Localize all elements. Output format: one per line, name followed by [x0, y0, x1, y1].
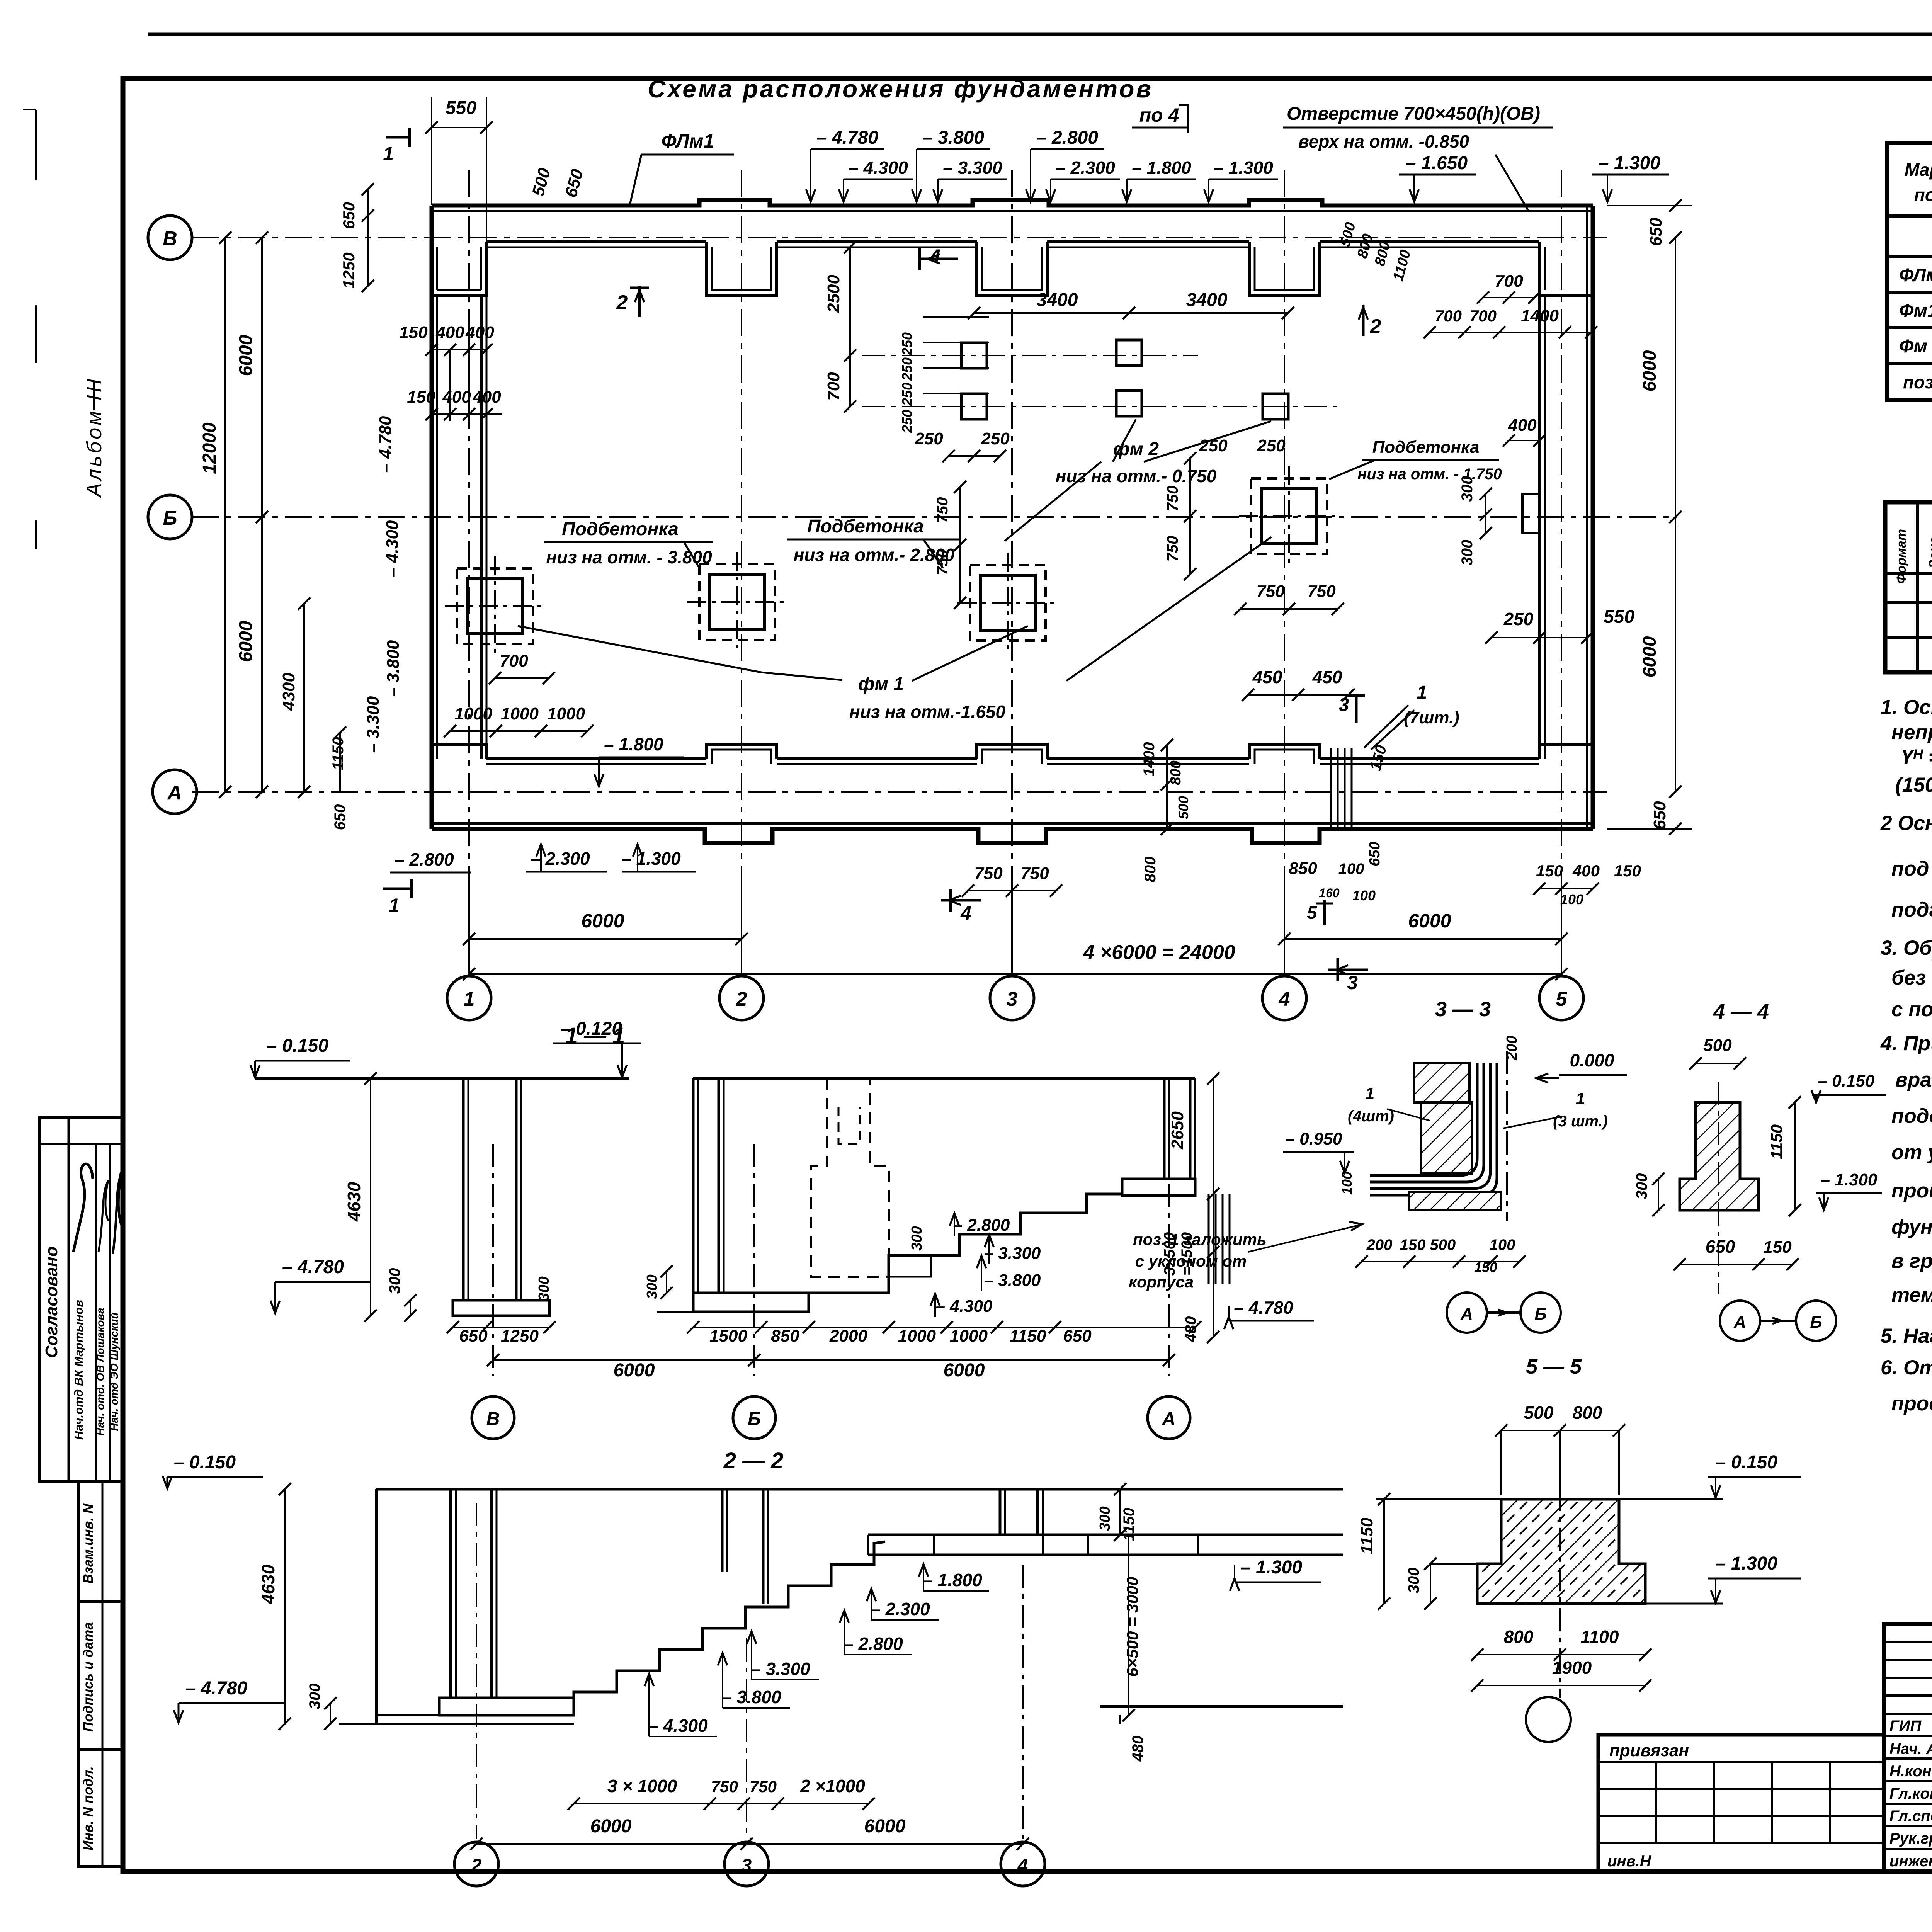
- svg-text:– 2.300: – 2.300: [1056, 158, 1115, 178]
- svg-text:2: 2: [1370, 315, 1381, 338]
- section 2-2 axis dashdots: [476, 1503, 477, 1839]
- svg-text:Нач. отд. ОВ Лошакова: Нач. отд. ОВ Лошакова: [94, 1308, 106, 1435]
- svg-text:1: 1: [383, 143, 394, 165]
- svg-text:Подбетонка: Подбетонка: [562, 519, 679, 539]
- svg-text:2000: 2000: [829, 1327, 867, 1345]
- svg-text:Рук.гр.: Рук.гр.: [1889, 1830, 1932, 1847]
- svg-text:– 0.150: – 0.150: [1818, 1071, 1875, 1090]
- svg-text:0.000: 0.000: [1570, 1050, 1614, 1070]
- svg-text:(4шт): (4шт): [1348, 1108, 1394, 1125]
- section 4-4 circles А Б: [1720, 1301, 1760, 1341]
- section 2-2 wall axis 4: [999, 1489, 1002, 1535]
- svg-text:500: 500: [1703, 1036, 1732, 1055]
- svg-text:Подбетонка: Подбетонка: [807, 516, 924, 537]
- svg-text:– 2.800: – 2.800: [395, 849, 454, 869]
- svg-text:– 1.650: – 1.650: [1406, 153, 1468, 173]
- svg-text:– 2.300: – 2.300: [531, 849, 590, 869]
- svg-text:300: 300: [1633, 1173, 1650, 1199]
- svg-text:750: 750: [711, 1777, 738, 1796]
- left strip box Взам.инв.N: [79, 1481, 124, 1602]
- svg-text:– 4.780: – 4.780: [1234, 1298, 1293, 1318]
- svg-text:750: 750: [934, 549, 951, 575]
- svg-text:– 4.300: – 4.300: [936, 1297, 993, 1316]
- svg-text:300: 300: [909, 1226, 925, 1250]
- svg-text:150: 150: [1474, 1259, 1497, 1275]
- plan top wall inner edge with pier notches: [486, 240, 706, 243]
- title block signature grid: [1884, 1641, 1932, 1643]
- svg-text:Подпись и дата: Подпись и дата: [81, 1622, 96, 1732]
- svg-text:– 4.780: – 4.780: [816, 128, 878, 148]
- section 1-1 staircase: [809, 1194, 1122, 1293]
- svg-text:400: 400: [442, 388, 471, 406]
- svg-text:Схема расположения фундамен: Схема расположения фундаментов: [648, 75, 1153, 103]
- svg-text:непросадочные со следующими: непросадочные со следующими характеристи…: [1891, 721, 1932, 744]
- svg-text:1150: 1150: [330, 737, 347, 770]
- svg-text:5: 5: [1307, 903, 1317, 923]
- svg-text:фундаменты теплоизоляционны: фундаменты теплоизоляционными материалам…: [1891, 1216, 1932, 1238]
- svg-text:6000: 6000: [236, 335, 256, 376]
- svg-text:– 0.950: – 0.950: [1286, 1129, 1342, 1148]
- svg-text:Гл.спец.: Гл.спец.: [1889, 1808, 1932, 1825]
- svg-text:В: В: [486, 1409, 500, 1429]
- section 2-2 axis circles: [454, 1842, 498, 1886]
- svg-text:Марка: Марка: [1905, 160, 1932, 180]
- svg-text:Инв. N подл.: Инв. N подл.: [81, 1766, 96, 1850]
- svg-text:1: 1: [1365, 1084, 1374, 1103]
- pier ФМ1 #2 with подбетонка dashed outline: [699, 564, 775, 640]
- svg-text:2: 2: [616, 291, 628, 314]
- spec table 2 grid: [1885, 502, 1932, 672]
- svg-text:150: 150: [399, 323, 428, 342]
- pier ФМ1 #3 with подбетонка dashed outline: [970, 565, 1046, 641]
- svg-text:800: 800: [1504, 1627, 1534, 1647]
- svg-text:Нач. АСО: Нач. АСО: [1889, 1740, 1932, 1757]
- pier ФМ2 #1: [961, 343, 987, 368]
- svg-text:1000: 1000: [501, 704, 539, 723]
- spec table 1 grid: [1887, 143, 1932, 400]
- svg-text:низ на отм. - 3.800: низ на отм. - 3.800: [546, 547, 712, 567]
- plan top wall outer edge with bumps: [432, 200, 1593, 206]
- section 1-1 slab at А: [1122, 1179, 1195, 1196]
- svg-text:2650: 2650: [1168, 1111, 1187, 1150]
- svg-text:400: 400: [1572, 862, 1600, 880]
- section 2-2 ground line: [376, 1488, 1343, 1491]
- svg-text:4: 4: [1017, 1855, 1028, 1876]
- svg-text:250: 250: [899, 383, 915, 406]
- axis line В: [192, 237, 1607, 238]
- svg-text:1500: 1500: [709, 1327, 747, 1345]
- section 5-5 bottom circle: [1526, 1697, 1571, 1742]
- svg-text:5. Нагрузка на фундамент: 5. Нагрузка на фундамент ФЛм 1- 33 кНм: [1881, 1325, 1932, 1347]
- svg-text:– 1.800: – 1.800: [1132, 158, 1191, 178]
- svg-text:1100: 1100: [1581, 1627, 1619, 1647]
- svg-text:300: 300: [306, 1684, 323, 1709]
- axis circle 1: [447, 976, 491, 1020]
- svg-text:300: 300: [1459, 476, 1476, 502]
- svg-text:4300: 4300: [279, 673, 298, 711]
- svg-text:Зона: Зона: [1927, 537, 1932, 568]
- svg-text:– 1.300: – 1.300: [1240, 1557, 1302, 1578]
- svg-text:500: 500: [1524, 1403, 1554, 1423]
- svg-text:3. Обратную засыпку пазух: 3. Обратную засыпку пазух фундаментов пр…: [1881, 937, 1932, 959]
- section 2-2 dim 4630: [284, 1489, 286, 1724]
- svg-text:450: 450: [1252, 667, 1282, 687]
- axis circle 4: [1262, 976, 1306, 1020]
- svg-text:1150: 1150: [1357, 1517, 1376, 1554]
- svg-text:3400: 3400: [1037, 290, 1078, 310]
- svg-text:– 0.150: – 0.150: [267, 1036, 328, 1056]
- svg-text:480: 480: [1182, 1316, 1199, 1343]
- svg-text:12000: 12000: [199, 422, 220, 474]
- svg-text:4630: 4630: [344, 1182, 364, 1222]
- svg-text:температуру замерзания г: температуру замерзания грунта: [1891, 1284, 1932, 1306]
- dim 2500 700 rotated: [849, 247, 851, 406]
- svg-text:ГИП: ГИП: [1889, 1718, 1922, 1735]
- svg-text:850: 850: [1289, 859, 1317, 878]
- svg-text:250: 250: [899, 357, 915, 381]
- pier ФМ2 #2: [961, 394, 987, 419]
- svg-text:150: 150: [1763, 1238, 1792, 1257]
- svg-text:с уклоном от: с уклоном от: [1135, 1252, 1247, 1270]
- svg-text:– 4.780: – 4.780: [282, 1257, 344, 1277]
- right wall jog at Б: [1522, 494, 1539, 533]
- svg-text:поз.: поз.: [1914, 185, 1932, 205]
- svg-text:низ на отм.-1.650: низ на отм.-1.650: [849, 702, 1005, 722]
- svg-text:550: 550: [1604, 607, 1634, 627]
- svg-text:Подбетонка: Подбетонка: [1372, 438, 1480, 457]
- svg-text:2: 2: [736, 988, 747, 1010]
- svg-text:3: 3: [1347, 972, 1358, 993]
- svg-text:3 × 1000: 3 × 1000: [607, 1776, 677, 1796]
- section 3-3 bottom hatched slab: [1409, 1192, 1501, 1210]
- svg-text:с послойным трамбованием: с послойным трамбованием до получения ϒ …: [1891, 998, 1932, 1021]
- svg-text:А: А: [1733, 1313, 1746, 1332]
- svg-text:В: В: [163, 228, 177, 250]
- svg-text:– 4.780: – 4.780: [185, 1678, 247, 1699]
- svg-text:низ на отм.- 2.800: низ на отм.- 2.800: [794, 545, 955, 565]
- section 5-5 hatched foundation: [1477, 1499, 1645, 1604]
- section 2-2 wall axis 2: [449, 1489, 452, 1698]
- svg-text:700: 700: [1495, 272, 1523, 291]
- svg-text:1000: 1000: [454, 704, 492, 723]
- right side vertical dim 6000 6000 with 650: [1675, 238, 1676, 517]
- section 1-1 wall at Б: [692, 1078, 695, 1293]
- svg-text:100: 100: [1560, 891, 1583, 907]
- left vertical dims 6000 6000: [261, 238, 263, 517]
- svg-text:корпуса: корпуса: [1129, 1273, 1194, 1291]
- svg-text:производить засыпку грунт: производить засыпку грунтом пазух котлов…: [1891, 1179, 1932, 1202]
- svg-text:Фм1: Фм1: [1899, 301, 1932, 321]
- svg-text:– 1.300: – 1.300: [621, 849, 681, 869]
- section 5-5 ground lines: [1376, 1498, 1501, 1500]
- section 2-2 left border: [375, 1489, 378, 1724]
- svg-text:проекта.: проекта.: [1891, 1392, 1932, 1415]
- svg-text:Үᴴ = 28° Сᴴ = 2 кпа ( 0.0: Үᴴ = 28° Сᴴ = 2 кпа ( 0.02 кгс /см ² ) Е…: [1901, 746, 1932, 769]
- section 3-3 circles А Б: [1447, 1293, 1487, 1333]
- svg-text:100: 100: [1490, 1236, 1515, 1253]
- svg-text:6000: 6000: [590, 1816, 632, 1837]
- svg-text:привязан: привязан: [1609, 1741, 1689, 1760]
- svg-text:3: 3: [1339, 695, 1349, 715]
- svg-text:– 3.300: – 3.300: [984, 1244, 1041, 1263]
- svg-text:вращения возможности мороз: вращения возможности морозного пучения г…: [1895, 1068, 1932, 1091]
- section 2-2 top slab right: [868, 1534, 1343, 1536]
- svg-text:1: 1: [1417, 682, 1427, 703]
- svg-text:– 2.800: – 2.800: [844, 1634, 903, 1654]
- svg-text:5 — 5: 5 — 5: [1526, 1355, 1582, 1378]
- svg-text:верх на отм. -0.850: верх на отм. -0.850: [1298, 131, 1469, 151]
- svg-text:250: 250: [1199, 436, 1228, 455]
- svg-text:4: 4: [960, 902, 971, 924]
- svg-text:– 1.300: – 1.300: [1599, 153, 1660, 173]
- plan bottom-left corner pier: [432, 744, 486, 759]
- svg-text:от увлажнения поверхностным: от увлажнения поверхностными водами , св…: [1891, 1141, 1932, 1164]
- svg-text:450: 450: [1312, 667, 1342, 687]
- svg-text:650: 650: [332, 804, 349, 830]
- section 3-3 upper hatched wall: [1414, 1063, 1469, 1102]
- axis circle 3: [990, 976, 1034, 1020]
- svg-text:5: 5: [1556, 988, 1568, 1010]
- svg-text:6. Отверстия для пропуска: 6. Отверстия для пропуска труб ВК выполн…: [1881, 1356, 1932, 1379]
- svg-text:– 3.800: – 3.800: [722, 1687, 781, 1707]
- svg-text:– 4.300: – 4.300: [849, 158, 908, 178]
- axis circles В Б А section 1-1: [472, 1396, 514, 1439]
- svg-text:– 2.300: – 2.300: [871, 1599, 930, 1619]
- svg-text:– 1.800: – 1.800: [604, 734, 663, 754]
- svg-text:А: А: [1460, 1304, 1473, 1323]
- svg-text:Нач. отд ЭО Шунский: Нач. отд ЭО Шунский: [108, 1313, 120, 1431]
- axis dash В section 1-1: [492, 1144, 494, 1376]
- svg-text:300: 300: [1405, 1568, 1422, 1594]
- svg-text:3 — 3: 3 — 3: [1435, 998, 1491, 1021]
- svg-text:6000: 6000: [1639, 350, 1660, 391]
- dashed pit section 1-1: [811, 1078, 889, 1277]
- svg-text:480: 480: [1129, 1736, 1146, 1762]
- plan right wall: [1591, 206, 1595, 829]
- svg-text:1000: 1000: [547, 704, 585, 723]
- svg-text:(150 кгс/см ² ) ; ϒ = 1.8: (150 кгс/см ² ) ; ϒ = 1.8 т/м ³. Грунтов…: [1895, 774, 1932, 796]
- svg-text:– 1.300: – 1.300: [1716, 1553, 1777, 1574]
- plan left wall: [430, 206, 434, 829]
- svg-text:ФЛм1: ФЛм1: [1899, 265, 1932, 286]
- svg-text:Б: Б: [1810, 1313, 1822, 1332]
- svg-text:700: 700: [500, 651, 528, 670]
- svg-text:3: 3: [742, 1855, 752, 1876]
- plan bottom wall inner edge with pier notches: [486, 757, 706, 760]
- svg-text:под монолитные фундаменты: под монолитные фундаменты Фм 1 предусмот…: [1891, 857, 1932, 880]
- svg-text:650: 650: [1650, 801, 1669, 830]
- svg-text:300: 300: [536, 1276, 552, 1301]
- svg-text:ФЛм1: ФЛм1: [662, 130, 714, 152]
- svg-text:– 2.800: – 2.800: [1036, 128, 1098, 148]
- pier ФМ1 #4 with подбетонка dashed outline: [1251, 478, 1327, 554]
- svg-text:4: 4: [1279, 988, 1290, 1010]
- svg-text:6000: 6000: [1408, 910, 1451, 932]
- svg-text:Формат: Формат: [1894, 529, 1909, 584]
- svg-text:фм 1: фм 1: [858, 674, 904, 694]
- svg-text:200: 200: [1366, 1236, 1393, 1253]
- svg-text:100: 100: [1338, 861, 1364, 878]
- svg-text:650: 650: [1646, 218, 1665, 246]
- svg-text:1400: 1400: [1521, 306, 1559, 325]
- svg-text:1250: 1250: [340, 252, 358, 288]
- svg-text:подготовки из бетона к: подготовки из бетона класса В12.5.: [1891, 898, 1932, 921]
- plan bottom-right corner pier: [1539, 744, 1593, 759]
- svg-text:750: 750: [1164, 536, 1181, 562]
- left bound table привязан: [1598, 1735, 1884, 1871]
- axis circle 5: [1539, 976, 1583, 1020]
- svg-text:низ на отм. - 1.750: низ на отм. - 1.750: [1357, 466, 1502, 483]
- axis circle Б: [148, 495, 192, 539]
- svg-text:Н.контр: Н.контр: [1889, 1763, 1932, 1780]
- svg-text:850: 850: [771, 1327, 799, 1345]
- svg-text:150: 150: [1614, 862, 1641, 880]
- svg-text:4 — 4: 4 — 4: [1713, 1000, 1769, 1023]
- svg-text:– 0.150: – 0.150: [1716, 1452, 1777, 1473]
- svg-text:– 1.800: – 1.800: [923, 1570, 982, 1590]
- svg-text:300: 300: [644, 1274, 660, 1299]
- svg-text:Отверстие 700×450(h)(ОВ): Отверстие 700×450(h)(ОВ): [1287, 104, 1540, 124]
- section 3-3 pipes bend: [1370, 1063, 1477, 1175]
- svg-text:400: 400: [435, 323, 464, 342]
- svg-text:1150: 1150: [1010, 1327, 1046, 1345]
- svg-text:700: 700: [824, 372, 843, 401]
- svg-text:6000: 6000: [236, 621, 256, 662]
- svg-text:4630: 4630: [258, 1564, 278, 1604]
- leader to opening: [1495, 155, 1528, 211]
- svg-text:750: 750: [934, 497, 951, 523]
- left vertical dim 4300 1150 650: [303, 604, 305, 792]
- svg-text:(3 шт.): (3 шт.): [1553, 1113, 1608, 1130]
- svg-text:250: 250: [914, 429, 943, 448]
- svg-text:– 4.780: – 4.780: [376, 416, 395, 473]
- svg-text:низ на отм.- 0.750: низ на отм.- 0.750: [1056, 466, 1217, 486]
- svg-text:– 0.120: – 0.120: [560, 1019, 622, 1039]
- pipes cluster right of А wall section 1-1: [1208, 1194, 1210, 1284]
- svg-text:250: 250: [1257, 436, 1286, 455]
- svg-text:150: 150: [1536, 862, 1563, 880]
- vertical axis lines 1-5: [468, 170, 470, 885]
- svg-text:1400: 1400: [1141, 742, 1158, 777]
- pier ФМ2 #5: [1263, 394, 1288, 419]
- axis circle 2: [719, 976, 764, 1020]
- svg-text:6000: 6000: [1639, 636, 1660, 677]
- svg-text:6000: 6000: [581, 910, 624, 932]
- svg-text:2 Основание под фундамент: 2 Основание под фундаменты Флм 1, Фм 2 у…: [1880, 812, 1932, 835]
- svg-text:1900: 1900: [1552, 1658, 1592, 1678]
- svg-text:инжен.: инжен.: [1889, 1853, 1932, 1870]
- svg-text:3: 3: [1007, 988, 1018, 1010]
- svg-text:650: 650: [340, 202, 358, 229]
- svg-text:Взам.инв. N: Взам.инв. N: [81, 1503, 96, 1583]
- plan top wall outer inner line: [432, 210, 1593, 212]
- section 5-5 axis dash: [1559, 1488, 1561, 1698]
- pier ФМ1 #1 with подбетонка dashed outline: [457, 568, 533, 644]
- svg-text:700: 700: [1435, 307, 1462, 325]
- svg-text:6000: 6000: [944, 1360, 985, 1381]
- svg-text:300: 300: [1097, 1506, 1113, 1531]
- svg-text:100: 100: [1352, 888, 1376, 903]
- svg-text:– 3.300: – 3.300: [751, 1659, 810, 1679]
- svg-text:650: 650: [1063, 1327, 1092, 1345]
- svg-text:250: 250: [1503, 609, 1534, 629]
- svg-text:Согласовано: Согласовано: [42, 1246, 61, 1358]
- svg-text:150 500: 150 500: [1400, 1236, 1456, 1253]
- svg-text:– 3.300: – 3.300: [364, 696, 383, 753]
- svg-text:800: 800: [1142, 857, 1159, 883]
- plan top-left corner pier: [432, 242, 486, 295]
- svg-text:650: 650: [1706, 1236, 1735, 1257]
- svg-text:160: 160: [1319, 886, 1340, 900]
- svg-text:Гл.конс.: Гл.конс.: [1889, 1785, 1932, 1802]
- svg-text:500: 500: [1175, 796, 1191, 819]
- title block outer: [1884, 1624, 1932, 1871]
- svg-text:Нач.отд ВК Мартынов: Нач.отд ВК Мартынов: [72, 1300, 85, 1440]
- punch marks left margin: [35, 110, 37, 180]
- svg-text:А: А: [167, 782, 182, 804]
- svg-text:1: 1: [1576, 1089, 1585, 1108]
- svg-text:2 — 2: 2 — 2: [723, 1448, 784, 1473]
- dashdot lines through ФМ2 rows: [862, 355, 1198, 356]
- axis circle В: [148, 216, 192, 260]
- svg-text:750: 750: [974, 864, 1003, 883]
- svg-text:Фм 2: Фм 2: [1899, 336, 1932, 357]
- svg-text:400: 400: [1508, 416, 1537, 435]
- svg-text:2 ×1000: 2 ×1000: [800, 1776, 865, 1796]
- svg-text:– 4.300: – 4.300: [383, 520, 402, 577]
- pier ФМ2 #3: [1116, 340, 1142, 366]
- svg-text:200: 200: [1504, 1036, 1520, 1060]
- left strip box Инв.N подл.: [79, 1749, 124, 1866]
- svg-text:550: 550: [446, 98, 476, 118]
- svg-text:1: 1: [464, 988, 475, 1010]
- svg-text:100: 100: [1339, 1172, 1355, 1195]
- plan top-right corner pier: [1539, 242, 1593, 295]
- section flag 1 top: [386, 136, 410, 139]
- section 2-2 wall axis 3: [721, 1489, 724, 1572]
- svg-text:– 3.800: – 3.800: [984, 1271, 1041, 1290]
- svg-text:подошвой фундаментов основ: подошвой фундаментов основание следует з…: [1891, 1105, 1932, 1128]
- svg-text:инв.Н: инв.Н: [1607, 1853, 1651, 1870]
- svg-text:без включения строительного: без включения строительного мусора и рас…: [1891, 966, 1932, 989]
- svg-text:4. При устройстве фундамен: 4. При устройстве фундаментов в зимний п…: [1880, 1032, 1932, 1055]
- svg-text:1. Основанием фундаментов сл: 1. Основанием фундаментов служат грунты …: [1881, 696, 1932, 719]
- svg-text:Б: Б: [163, 507, 177, 529]
- svg-text:6000: 6000: [614, 1360, 655, 1381]
- svg-text:– 2.800: – 2.800: [953, 1216, 1010, 1235]
- svg-text:750: 750: [1020, 864, 1049, 883]
- sheet top edge line: [148, 33, 1932, 36]
- svg-text:А: А: [1162, 1409, 1176, 1429]
- axis circle А: [153, 770, 197, 814]
- svg-text:– 3.300: – 3.300: [943, 158, 1002, 178]
- svg-text:Б: Б: [748, 1409, 761, 1429]
- svg-text:250: 250: [899, 410, 915, 433]
- section 4-4 axis dash: [1718, 1082, 1719, 1294]
- axis dash Б А section 1-1: [753, 1144, 755, 1376]
- svg-text:2: 2: [471, 1855, 482, 1876]
- svg-text:– 4.300: – 4.300: [648, 1716, 708, 1736]
- svg-text:750: 750: [1307, 582, 1336, 601]
- section 1-1 dim 4630: [370, 1078, 371, 1316]
- svg-text:– 1.300: – 1.300: [1214, 158, 1273, 178]
- svg-text:поз.1: поз.1: [1903, 372, 1932, 392]
- dim 3400 3400: [974, 312, 1288, 314]
- svg-text:750: 750: [1256, 582, 1285, 601]
- svg-text:4 ×6000 = 24000: 4 ×6000 = 24000: [1083, 941, 1235, 964]
- svg-text:по 4: по 4: [1139, 104, 1179, 126]
- svg-text:3400: 3400: [1186, 290, 1228, 310]
